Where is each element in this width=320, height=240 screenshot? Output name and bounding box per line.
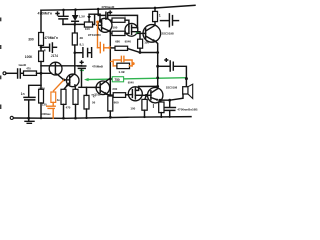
wire Q2 collector riser bbox=[74, 53, 76, 75]
mosfet M2 drain stub bbox=[135, 87, 138, 91]
diode D1 bar bbox=[72, 20, 79, 22]
wire R86 bottom bbox=[86, 109, 88, 118]
transistor Q5 base bar bbox=[145, 29, 147, 39]
transistor Q4 emitter arrow bbox=[100, 21, 102, 23]
transistor Q1 J174 circle bbox=[49, 62, 62, 75]
transistor Q5 2SC5198 upper circle bbox=[143, 25, 161, 43]
node rail x98 bbox=[97, 8, 100, 11]
node output bbox=[159, 99, 162, 102]
svg-text:100: 100 bbox=[130, 107, 135, 111]
orange feedback riser bbox=[97, 22, 99, 48]
resistor R680 bbox=[115, 46, 128, 50]
orange resistor 130 bbox=[51, 92, 56, 102]
transistor Q2 base bar bbox=[69, 76, 71, 85]
capacitor C470 plus bbox=[80, 61, 83, 64]
mosfet M2 channel bar bbox=[134, 88, 136, 99]
orange node BJT1 emitter bbox=[96, 21, 99, 24]
wire C470 bottom bbox=[81, 69, 83, 88]
wire left column mid bbox=[40, 46, 42, 52]
diode D2 small bbox=[87, 16, 91, 20]
wire rail to R155 bbox=[154, 8, 156, 11]
capacitor C-out plates bbox=[165, 108, 176, 111]
wire R110 bottom bbox=[109, 111, 111, 117]
wire R161 bottom bbox=[160, 113, 162, 117]
wire R161 top bbox=[160, 100, 161, 102]
wire C4700 to M1 drain bbox=[108, 15, 137, 27]
mosfet M1 source stub bbox=[132, 32, 140, 40]
node rail bottoms bbox=[40, 117, 42, 119]
transistor Q5 emitter bbox=[146, 36, 153, 40]
capacitor C 1n plates bbox=[24, 97, 35, 100]
wire node to R200 bbox=[110, 94, 113, 96]
svg-text:1: 1 bbox=[159, 14, 161, 18]
svg-text:130: 130 bbox=[42, 103, 47, 107]
svg-text:100К: 100К bbox=[25, 55, 34, 59]
mosfet M2 source stub bbox=[135, 94, 146, 96]
node rail x155 bbox=[154, 7, 157, 10]
transistor Q4 base lead bbox=[97, 24, 102, 26]
wire after C-in bbox=[21, 72, 24, 74]
capacitor C166 plus bbox=[165, 59, 168, 62]
left edge tick 3 bbox=[0, 76, 1, 80]
wire R75 bottom bbox=[75, 104, 77, 118]
resistor R161 bbox=[159, 102, 164, 113]
node Q3 emitter bbox=[109, 94, 112, 97]
node H-cap junction bbox=[74, 51, 77, 54]
transistor Q1 channel bar bbox=[54, 63, 56, 74]
node rail cap63 bbox=[62, 9, 65, 12]
transistor Q2 base lead bbox=[65, 79, 70, 81]
wire speaker drop bbox=[185, 79, 187, 87]
wire gate top to M1 bbox=[125, 20, 129, 27]
svg-text:470МкГн: 470МкГн bbox=[38, 11, 53, 15]
transistor Q2 collector up bbox=[70, 74, 74, 78]
svg-text:600: 600 bbox=[114, 100, 119, 104]
svg-text:КТ3107И: КТ3107И bbox=[88, 33, 101, 37]
capacitor C4700 plus bbox=[109, 11, 112, 14]
wire R1000 to rail bbox=[40, 103, 42, 118]
svg-text:200: 200 bbox=[112, 87, 117, 91]
transistor Q4 KT3107 circle bbox=[98, 18, 112, 32]
wire M2 drain to column bbox=[139, 85, 158, 87]
resistor R gate top bbox=[112, 18, 125, 22]
wire R155 to Q5 bbox=[154, 22, 156, 26]
transistor Q3 emitter bbox=[100, 90, 105, 93]
orange capacitor C-fb elbow bbox=[98, 47, 100, 49]
capacitor C63 electrolytic stem bbox=[63, 10, 65, 16]
wire diode top bbox=[74, 10, 76, 15]
capacitor C-node47 lead bbox=[41, 46, 49, 48]
svg-text:1000: 1000 bbox=[38, 87, 45, 91]
capacitor C470 stem top bbox=[81, 65, 83, 67]
wire right column x157.7 bbox=[157, 53, 159, 89]
wire input lead bbox=[6, 72, 17, 74]
svg-text:2SC5198: 2SC5198 bbox=[162, 31, 174, 35]
transistor Q6 collector bbox=[151, 89, 157, 93]
wire C63 bottom bbox=[62, 19, 64, 24]
svg-text:750: 750 bbox=[114, 78, 120, 82]
wire BJT1 emitter riser bbox=[99, 14, 101, 19]
resistor R gate bottom bbox=[112, 31, 125, 35]
resistor R 1000 bbox=[39, 89, 44, 103]
green output sense line bbox=[87, 78, 187, 80]
resistor R 1.3K bbox=[117, 63, 130, 68]
wire R140 bottom bbox=[139, 48, 141, 52]
wire drain supply line y65.8 bbox=[41, 65, 82, 67]
orange cap 1000мк bottom bbox=[52, 109, 54, 119]
capacitor C-node47 right lead bbox=[53, 46, 57, 48]
capacitor C-H plates bbox=[83, 48, 88, 58]
node input junction bbox=[40, 72, 43, 75]
mosfet M1 gate bar bbox=[128, 27, 130, 34]
input terminal bbox=[3, 72, 6, 75]
node M2 drain column bbox=[156, 85, 159, 88]
transistor Q2 circle bbox=[66, 74, 79, 87]
wire bottom ground rail bbox=[13, 117, 191, 119]
speaker horn bbox=[188, 84, 193, 98]
transistor Q2 emitter bbox=[67, 82, 70, 85]
svg-text:J174: J174 bbox=[51, 54, 58, 58]
transistor Q3 KT3102 circle bbox=[96, 81, 110, 95]
svg-text:8,1: 8,1 bbox=[80, 43, 85, 47]
mosfet M1 channel bar bbox=[131, 25, 133, 34]
svg-text:1,3V: 1,3V bbox=[79, 14, 86, 18]
wire R100 right riser bbox=[89, 14, 95, 24]
wire Q5 emitter down bbox=[155, 41, 158, 52]
capacitor C63 plates bbox=[59, 16, 69, 19]
wire R144 bottom bbox=[144, 110, 146, 117]
transistor Q3 base lead bbox=[95, 86, 100, 88]
orange RC cap plates bbox=[121, 56, 124, 61]
svg-text:390: 390 bbox=[28, 37, 34, 41]
wire main mid column x110 bbox=[109, 31, 111, 96]
svg-text:1n: 1n bbox=[21, 92, 25, 96]
orange RC resistor left lead bbox=[113, 65, 117, 67]
wire 680 diagonal bbox=[128, 49, 140, 53]
node green right column bbox=[156, 76, 159, 79]
label tick 1 between R144 R161 bbox=[153, 104, 154, 108]
mosfet M1 drain stub bbox=[132, 27, 138, 29]
wire C-out bottom bbox=[169, 111, 171, 117]
wire gate bottom to M1 bbox=[125, 32, 129, 34]
orange diagonal feedback bbox=[54, 80, 64, 91]
resistor R gate bottom lead bbox=[110, 32, 112, 34]
wire to JFET gate bbox=[37, 72, 52, 74]
capacitor C166 plates bbox=[170, 61, 173, 71]
svg-text:4: 4 bbox=[44, 49, 46, 53]
svg-text:680: 680 bbox=[115, 40, 120, 44]
transistor Q6 base bar bbox=[150, 91, 152, 100]
wire y14.2 to emitter bbox=[95, 13, 100, 15]
orange cap 1000мк stem bbox=[52, 102, 54, 105]
transistor Q5 collector bbox=[146, 25, 155, 31]
transistor Q3 collector bbox=[100, 79, 110, 86]
wire Q3 emitter to node bbox=[107, 94, 111, 95]
wire 1n branch bottom bbox=[28, 100, 30, 118]
svg-text:кт3102: кт3102 bbox=[92, 92, 102, 96]
mosfet M2 gate bar bbox=[131, 90, 133, 98]
resistor R140 100 bbox=[138, 39, 143, 48]
capacitor C-H third bar bbox=[88, 48, 92, 58]
wire output run bbox=[160, 94, 183, 100]
wire R86 top bbox=[86, 87, 88, 95]
capacitor C-out 4700 stem bbox=[169, 100, 171, 107]
node rail diode75 bbox=[74, 8, 77, 11]
svg-text:2SC5198: 2SC5198 bbox=[166, 86, 178, 90]
svg-text:56: 56 bbox=[92, 100, 96, 104]
orange RC cap right lead bbox=[124, 60, 132, 66]
capacitor C166 left lead bbox=[158, 65, 170, 67]
node A junction 100K top bbox=[40, 46, 43, 49]
resistor R144 100 bbox=[142, 99, 147, 110]
wire left column lower bbox=[40, 62, 42, 90]
transistor Q6 emitter bbox=[151, 98, 157, 100]
left edge tick 1 bbox=[0, 18, 1, 22]
resistor R-in bbox=[24, 71, 37, 75]
orange node RC right bbox=[132, 62, 135, 65]
diode D1 bbox=[72, 15, 79, 21]
capacitor C-H lead bbox=[75, 52, 83, 54]
svg-text:9540: 9540 bbox=[125, 40, 132, 44]
resistor R155 bbox=[153, 11, 158, 21]
transistor Q6 2SC5198 lower circle bbox=[148, 88, 163, 103]
svg-text:470МкГн: 470МкГн bbox=[44, 36, 58, 40]
speaker box bbox=[183, 87, 188, 94]
diode D2 stems bbox=[88, 14, 90, 22]
transistor Q5 base lead bbox=[138, 32, 146, 34]
node 2K top bbox=[74, 23, 77, 26]
ground symbol bbox=[25, 118, 34, 123]
wire 2K column bottom bbox=[74, 45, 76, 53]
node +cap branch bbox=[156, 65, 159, 68]
orange cap 1000мк plates bbox=[47, 106, 56, 108]
svg-text:470: 470 bbox=[26, 67, 31, 71]
wire left column x41 top bbox=[40, 10, 42, 32]
resistor R86 56 bbox=[84, 95, 89, 109]
svg-text:1мкФ: 1мкФ bbox=[18, 63, 26, 67]
wire y52.5 bbox=[140, 52, 158, 54]
capacitor C165 plates bbox=[169, 14, 172, 27]
resistor R100 bias bbox=[84, 22, 92, 27]
wire R200 to M2 gate bbox=[126, 94, 133, 96]
capacitor C470 plates bbox=[78, 66, 86, 68]
node green end bbox=[185, 77, 188, 80]
wire diode bottom bbox=[74, 22, 76, 25]
transistor Q3 base bar bbox=[99, 83, 101, 92]
wire 2K column top bbox=[74, 24, 76, 33]
transistor Q1 source lead bbox=[55, 74, 63, 80]
wire rail to C4700 bbox=[98, 9, 105, 15]
resistor R110 under column bbox=[108, 96, 113, 111]
green tick C470 bbox=[80, 69, 83, 71]
mosfet M2 circle bbox=[128, 87, 142, 101]
transistor Q4 collector bbox=[102, 28, 111, 32]
node y52.5 left bbox=[139, 51, 142, 54]
orange node on mid column bbox=[108, 46, 111, 49]
capacitor C4700 plates bbox=[106, 12, 108, 19]
resistor row R top lead bbox=[110, 19, 112, 21]
resistor R75 bbox=[73, 89, 78, 104]
left edge tick 4 bbox=[0, 105, 1, 110]
capacitor C-in 1мкФ plates bbox=[18, 69, 21, 78]
capacitor C63 plus sign bbox=[56, 12, 59, 15]
svg-text:470: 470 bbox=[66, 106, 71, 110]
transistor Q6 base lead bbox=[146, 94, 151, 96]
resistor L1 470МкГн bbox=[39, 33, 44, 46]
resistor R 2K bbox=[72, 33, 77, 45]
wire source to R144 bbox=[145, 95, 147, 99]
node green mid column bbox=[109, 78, 112, 81]
node Q1 source bbox=[62, 79, 65, 82]
svg-text:4700мкФх16В: 4700мкФх16В bbox=[177, 108, 198, 112]
output terminal bottom left bbox=[10, 116, 13, 119]
wire Q2 right leg bbox=[74, 85, 77, 89]
green resistor box 750 bbox=[112, 77, 123, 82]
wire 1n branch top bbox=[29, 85, 41, 97]
svg-text:9540: 9540 bbox=[128, 80, 134, 84]
resistor R2 100K bbox=[39, 51, 44, 62]
wire bias line y24.4 bbox=[63, 23, 84, 25]
node output cap bbox=[168, 99, 171, 102]
capacitor C166 right lead bbox=[174, 66, 187, 78]
node y52.5 right bbox=[156, 51, 159, 54]
orange capacitor C-fb right lead bbox=[104, 47, 109, 49]
svg-text:1.3К: 1.3К bbox=[118, 70, 124, 74]
transistor Q4 base bar bbox=[101, 21, 103, 30]
wire emitter line y87.3 bbox=[79, 86, 95, 88]
svg-text:2К: 2К bbox=[80, 36, 84, 40]
left edge tick 2 bbox=[0, 45, 1, 49]
wire to 680 resistor bbox=[111, 47, 115, 49]
green arrowhead bbox=[84, 78, 89, 81]
resistor R200 bbox=[113, 93, 125, 98]
green tick M1 source bbox=[137, 32, 140, 34]
capacitor C-node47 plates bbox=[50, 43, 53, 52]
capacitor C165 left lead bbox=[161, 20, 169, 22]
resistor R63 470 bbox=[61, 89, 66, 104]
svg-text:1000мк: 1000мк bbox=[41, 112, 52, 116]
orange RC cap left lead bbox=[113, 59, 121, 61]
orange capacitor C-fb plates bbox=[100, 43, 103, 53]
wire Q2 emitter to R63 bbox=[64, 87, 67, 90]
orange RC right lead bbox=[130, 65, 133, 67]
node M2 source bbox=[145, 94, 148, 97]
wire R63 bottom bbox=[63, 104, 65, 118]
orange RC network left elbow bbox=[111, 61, 113, 66]
mosfet M1 circle bbox=[125, 23, 138, 36]
wire top supply rail bbox=[41, 5, 195, 10]
svg-text:4700мкФ: 4700мкФ bbox=[101, 5, 114, 9]
node rail 1n bbox=[27, 117, 30, 120]
svg-text:100: 100 bbox=[85, 27, 90, 31]
svg-text:100: 100 bbox=[113, 25, 118, 29]
capacitor C165 right lead bbox=[173, 20, 179, 22]
svg-text:470МкФ: 470МкФ bbox=[92, 64, 104, 68]
